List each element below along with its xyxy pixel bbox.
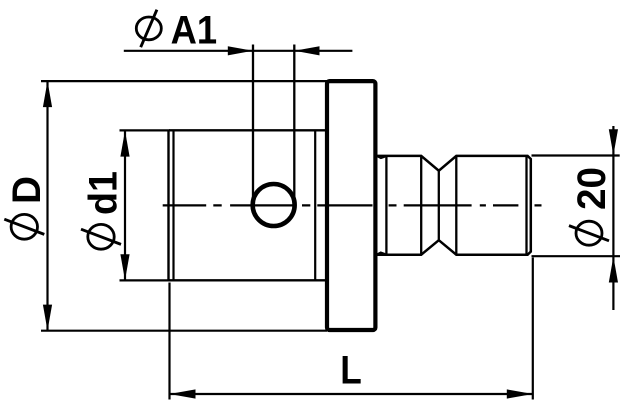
svg-text:L: L: [340, 349, 362, 393]
svg-text:d1: d1: [82, 171, 126, 215]
svg-text:A1: A1: [171, 9, 218, 53]
svg-text:D: D: [5, 176, 49, 204]
svg-text:20: 20: [570, 167, 614, 210]
